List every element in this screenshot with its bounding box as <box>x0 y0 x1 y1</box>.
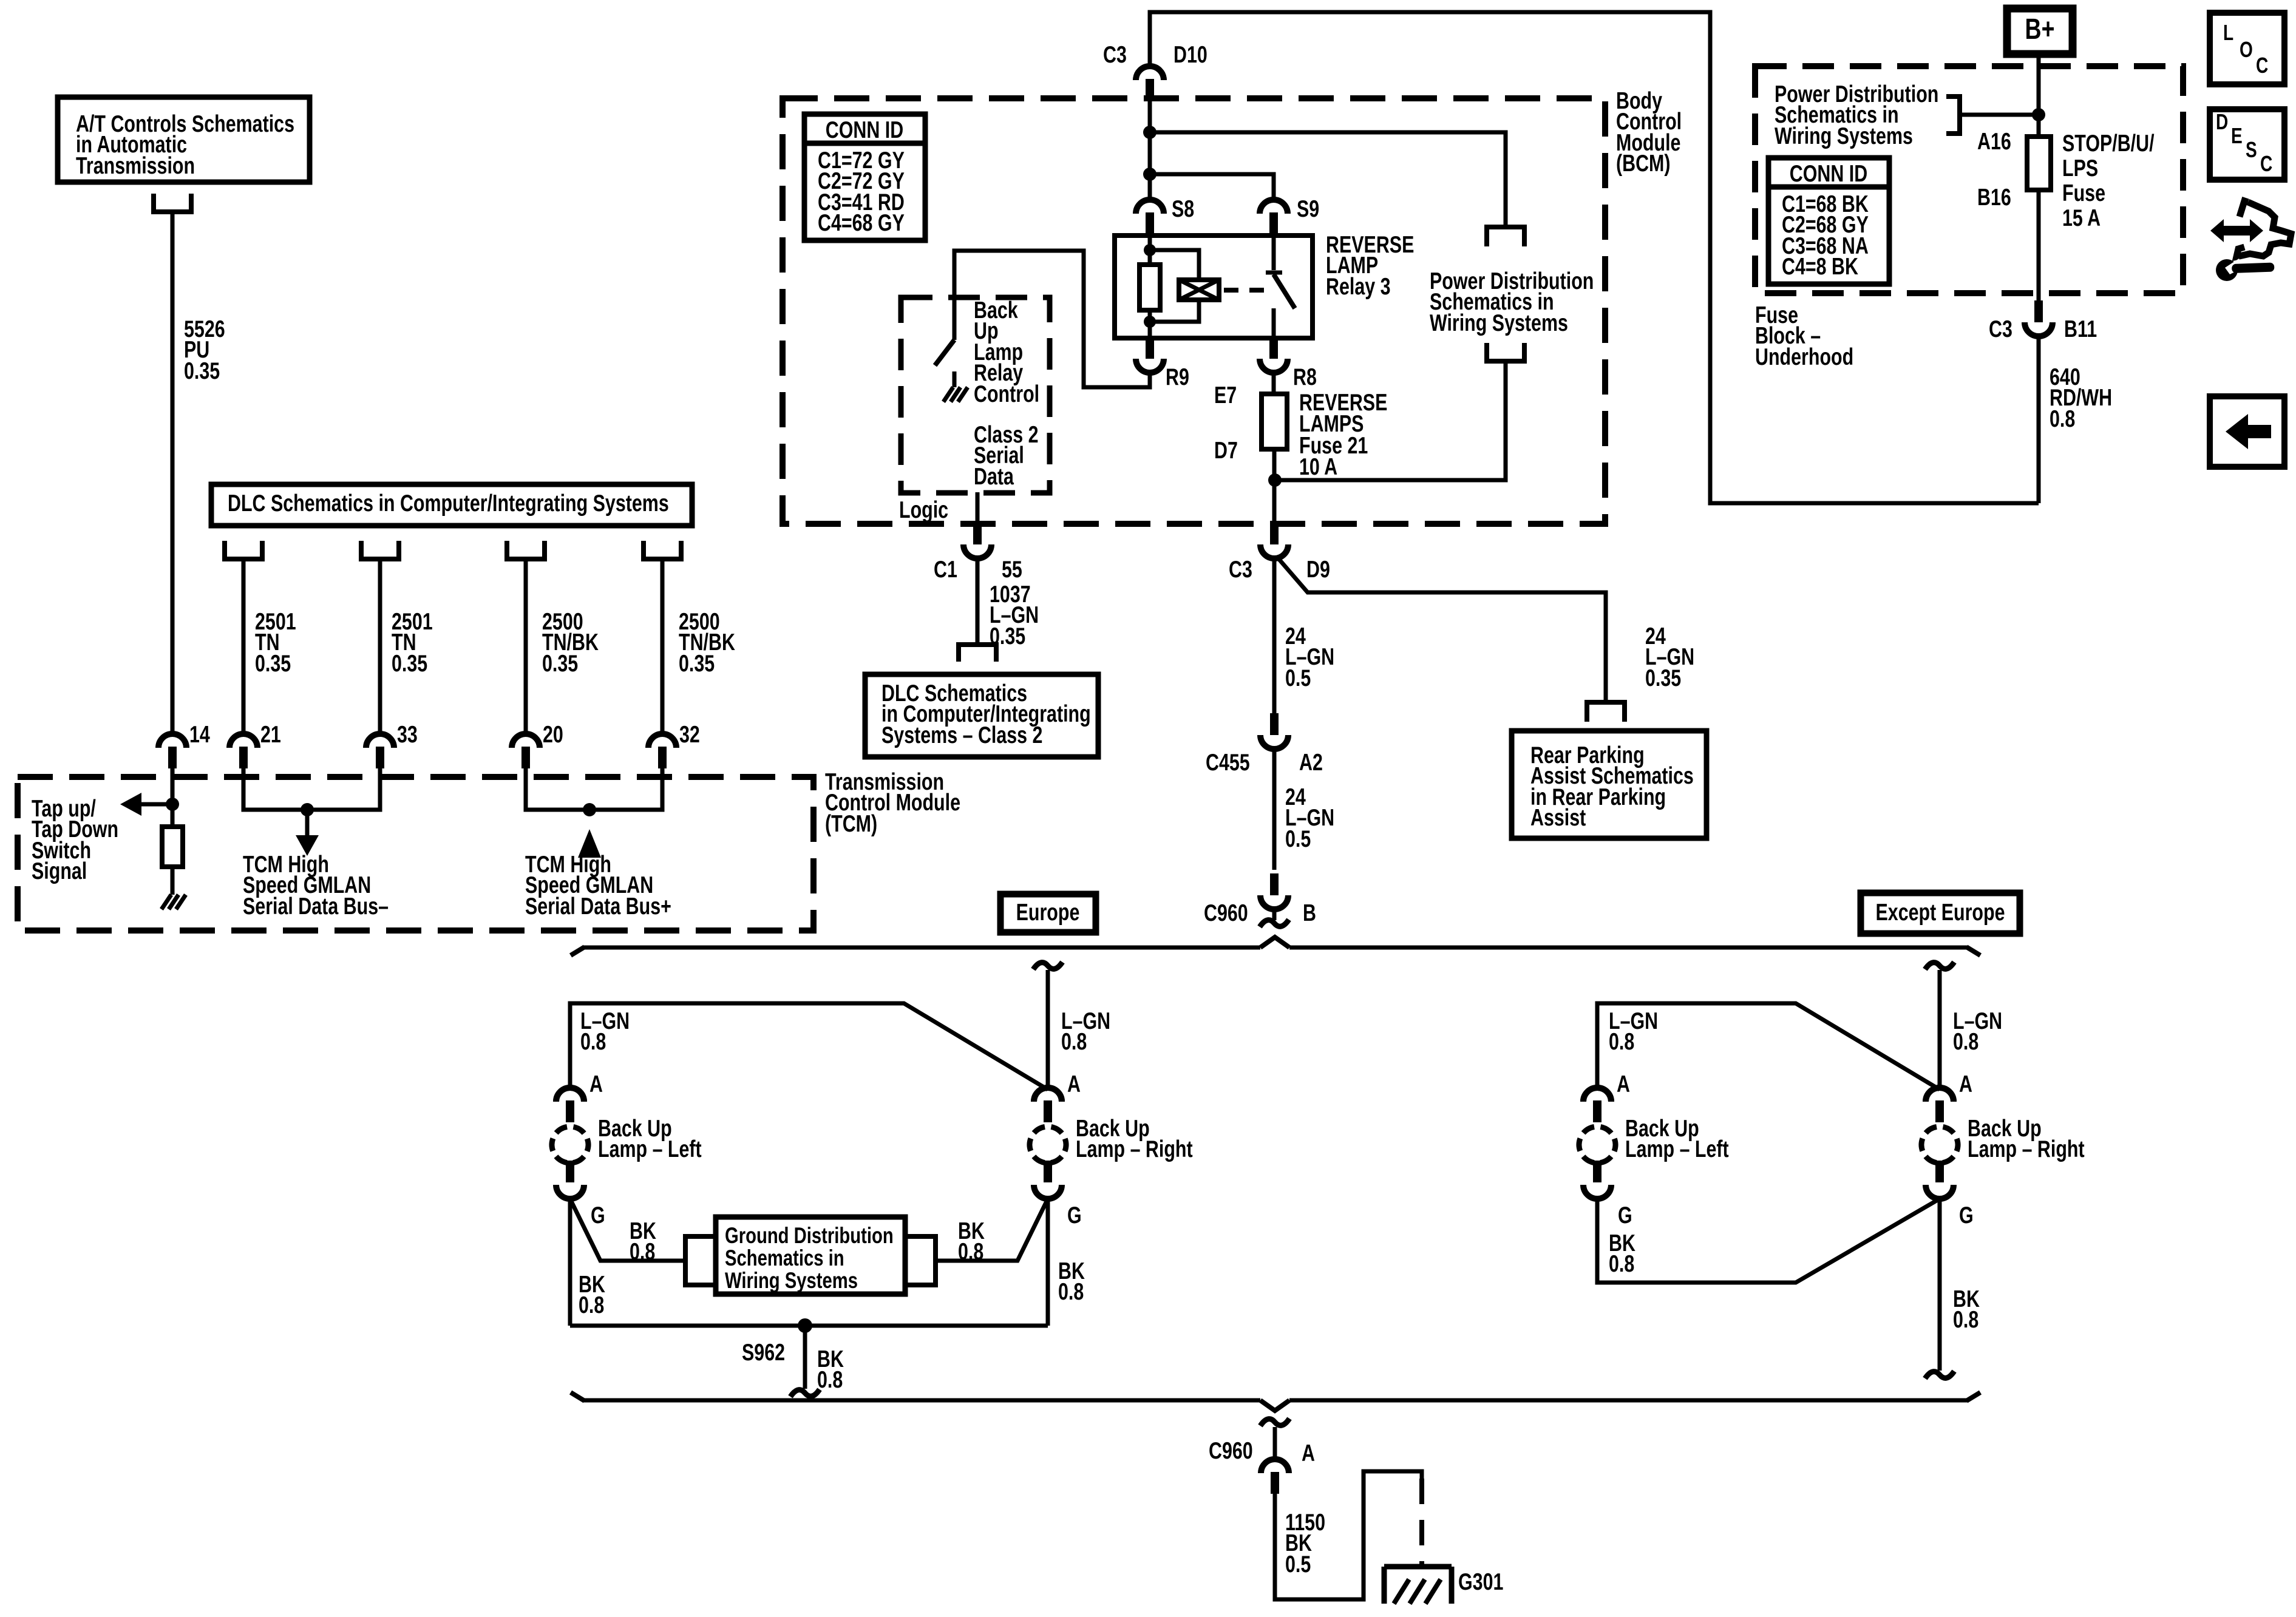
label C3 (D9 connector) <box>1229 556 1252 582</box>
module label Body Control Module (BCM) <box>1616 87 1682 176</box>
label box Europe <box>1000 894 1096 932</box>
icon wrench <box>2216 259 2274 281</box>
icon box back arrow <box>2210 396 2284 467</box>
bulb Back Up Lamp - Left (Europe) <box>545 1088 596 1199</box>
wire S962 to brace <box>803 1326 807 1389</box>
svg-text:DLC Schematics in Computer/Int: DLC Schematics in Computer/Integrating S… <box>228 490 669 516</box>
svg-text:A: A <box>1302 1440 1315 1466</box>
wire branch to rear parking assist <box>1277 557 1606 702</box>
label Back Up Lamp - Right (Europe) <box>1076 1115 1193 1162</box>
wire class-2 serial data out of BCM <box>976 492 980 529</box>
wire label 2501 TN 0.35 (pin 21) <box>255 608 296 676</box>
svg-text:Lamp – Left: Lamp – Left <box>598 1136 702 1162</box>
connector R9 <box>1136 337 1164 373</box>
label A2 <box>1299 749 1323 775</box>
staple connector above Rear Parking Assist box <box>1587 702 1625 722</box>
svg-text:C3: C3 <box>1103 41 1127 67</box>
label S9 <box>1297 195 1319 222</box>
wire from DLC staple to TCM pin at x=1091 <box>661 559 665 734</box>
label Fuse Block - Underhood <box>1755 302 1853 370</box>
wire Europe left lamp feed <box>570 1003 1048 1090</box>
label Class 2 Serial Data <box>974 421 1039 489</box>
label G Europe right <box>1067 1202 1082 1228</box>
resistor in TCM (tap switch pull) <box>162 827 183 867</box>
wire fuse B16 to C3 B11 <box>2037 190 2041 308</box>
wire label BK 0.8 Europe left drop <box>579 1271 605 1318</box>
svg-text:32: 32 <box>679 721 700 747</box>
svg-text:D9: D9 <box>1306 556 1330 582</box>
svg-text:(BCM): (BCM) <box>1616 150 1671 176</box>
connector pin 14 at TCM <box>158 734 186 768</box>
bottom brace line (to C960 A) <box>571 1392 1980 1411</box>
junction node relay coil top <box>1144 244 1156 256</box>
svg-text:Signal: Signal <box>32 858 87 884</box>
svg-text:B: B <box>1303 900 1316 926</box>
svg-text:0.5: 0.5 <box>1285 665 1311 691</box>
wire C3 D10 into BCM to relay S8 <box>1148 101 1152 200</box>
fuse REVERSE LAMPS Fuse 21 10A <box>1262 394 1287 449</box>
wire fuse D7 down <box>1272 449 1277 531</box>
wire Europe left lamp ground drop <box>568 1199 572 1326</box>
wire Except-Europe left lamp feed <box>1597 1003 1940 1090</box>
logic switch arm <box>935 340 954 365</box>
module box DLC Schematics in Computer/Integrating Systems - Class 2 <box>865 674 1098 757</box>
svg-text:Logic: Logic <box>899 497 948 523</box>
chassis ground in TCM <box>161 895 186 909</box>
wire label 24 L-GN 0.5 (lower) <box>1285 784 1334 852</box>
wire 1150 BK to ground loop <box>1275 1471 1422 1599</box>
connector S8 <box>1136 200 1164 234</box>
fuse block underhood dashed box <box>1755 66 2183 293</box>
junction node below fuse 21 <box>1268 473 1282 487</box>
resistor in relay (coil suppression) <box>1140 265 1160 310</box>
svg-text:14: 14 <box>189 721 210 747</box>
relay switch arm <box>1274 274 1295 308</box>
label D9 <box>1306 556 1330 582</box>
wire from DLC staple to TCM pin at x=626 <box>378 559 382 734</box>
svg-text:(TCM): (TCM) <box>825 810 877 836</box>
connector C960 B <box>1260 873 1288 909</box>
svg-text:B11: B11 <box>2064 316 2097 342</box>
wire Except-Europe ground link <box>1597 1199 1940 1283</box>
svg-text:R9: R9 <box>1166 364 1189 390</box>
svg-text:0.8: 0.8 <box>817 1366 843 1392</box>
wire pin 14 into TCM <box>171 768 175 827</box>
svg-text:Systems – Class 2: Systems – Class 2 <box>881 722 1042 748</box>
wire label BK 0.8 at S962 <box>817 1346 844 1392</box>
wire pin 33 to GMLAN bus- node <box>307 768 380 810</box>
label Back Up Lamp Relay Control <box>974 297 1039 407</box>
staple connector below DLC box at x=1091 <box>644 541 681 559</box>
label R9 <box>1166 364 1189 390</box>
svg-text:0.35: 0.35 <box>184 358 220 384</box>
connector A Back Up Lamp Left (Except Europe) <box>1583 1088 1611 1122</box>
wire brace to C960 A <box>1273 1427 1277 1459</box>
module box DLC Schematics in Computer/Integrating Systems <box>211 484 692 526</box>
label C3 (top connector) <box>1103 41 1127 67</box>
wire label BK 0.8 ExEur right <box>1953 1286 1980 1332</box>
svg-text:0.8: 0.8 <box>1953 1028 1978 1054</box>
svg-text:G301: G301 <box>1458 1568 1503 1595</box>
svg-text:0.5: 0.5 <box>1285 825 1311 852</box>
svg-text:0.8: 0.8 <box>1609 1250 1634 1276</box>
staple connector to Power Distribution (top) <box>1487 227 1524 246</box>
pin number 33 <box>397 721 418 747</box>
svg-text:E: E <box>2231 124 2243 148</box>
svg-text:R8: R8 <box>1293 364 1317 390</box>
icon hand with wrench (double arrow) <box>2210 219 2263 242</box>
connector A Back Up Lamp Right (Europe) <box>1034 1088 1062 1122</box>
label A ExEur left <box>1617 1071 1630 1097</box>
dashed wire to G301 <box>1419 1479 1424 1569</box>
wire bracket to B+ wire <box>1960 113 2039 117</box>
label R8 <box>1293 364 1317 390</box>
svg-text:21: 21 <box>260 721 281 747</box>
svg-text:G: G <box>1067 1202 1082 1228</box>
staple connector below DLC box at x=866 <box>507 541 545 559</box>
svg-text:0.8: 0.8 <box>1953 1306 1978 1332</box>
relay box REVERSE LAMP Relay 3 <box>1115 236 1313 338</box>
wire label L-GN 0.8 Europe right <box>1061 1008 1110 1054</box>
svg-text:0.8: 0.8 <box>630 1238 655 1264</box>
label A16 <box>1977 128 2011 154</box>
svg-text:0.8: 0.8 <box>1609 1028 1634 1054</box>
label C3 (B11) <box>1989 316 2012 342</box>
junction node S bus- <box>301 803 314 816</box>
wire label 24 L-GN 0.35 (rear parking) <box>1645 623 1694 691</box>
relay switch contact tick <box>1266 271 1282 275</box>
svg-text:0.35: 0.35 <box>255 650 291 676</box>
relay coil box with X <box>1179 280 1219 300</box>
connector pin 32 at TCM <box>648 734 676 768</box>
svg-text:33: 33 <box>397 721 418 747</box>
label A Europe left <box>589 1071 603 1097</box>
wire label 1150 BK 0.5 <box>1285 1509 1325 1577</box>
connector C455 A2 <box>1260 713 1288 749</box>
svg-text:G: G <box>1618 1202 1632 1228</box>
relay switch fixed leg <box>1272 236 1276 338</box>
svg-text:Control: Control <box>974 381 1039 407</box>
svg-text:D7: D7 <box>1214 437 1238 463</box>
wire relay coil parallel branch <box>1150 250 1199 322</box>
junction node S bus+ <box>583 803 596 816</box>
tap signal wire to arrow <box>141 802 172 807</box>
svg-text:0.8: 0.8 <box>1058 1278 1084 1304</box>
ground G301 symbol <box>1384 1567 1452 1604</box>
connector R8 <box>1260 337 1288 373</box>
svg-text:Assist: Assist <box>1530 804 1586 830</box>
connector C960 A <box>1261 1459 1289 1494</box>
svg-text:S8: S8 <box>1172 195 1194 222</box>
wire S9/R8 to fuse E7 <box>1272 373 1276 394</box>
wire 640 RD/WH down (to loop) <box>2037 336 2041 503</box>
svg-text:Serial Data Bus–: Serial Data Bus– <box>243 893 389 919</box>
wire pin 20 to GMLAN bus+ node <box>526 768 589 810</box>
wire 5526 from A/T box to pin 14 <box>171 212 175 734</box>
junction splice S962 <box>798 1318 812 1333</box>
label A (C960) <box>1302 1440 1315 1466</box>
pin number 21 <box>260 721 281 747</box>
svg-text:E7: E7 <box>1214 382 1237 408</box>
logic switch ground stub <box>953 371 957 387</box>
svg-text:L: L <box>2223 21 2233 45</box>
svg-text:Wiring Systems: Wiring Systems <box>1430 310 1568 336</box>
label C1 <box>934 556 957 582</box>
label Power Distribution Schematics in Wiring Systems (fuse block) <box>1775 81 1938 149</box>
fuse label STOP/B/U/ LPS Fuse 15 A <box>2062 130 2155 231</box>
svg-text:C: C <box>2260 152 2272 176</box>
wire C455 to C960 B <box>1272 749 1277 870</box>
wire label 24 L-GN 0.5 (upper) <box>1285 623 1334 691</box>
label G ExEur left <box>1618 1202 1632 1228</box>
svg-text:C4=68 GY: C4=68 GY <box>818 209 905 236</box>
connector C1 55 <box>963 523 991 558</box>
wire 1037 to DLC box <box>976 558 980 645</box>
label TCM High Speed GMLAN Serial Data Bus+ <box>525 851 671 919</box>
pin number 32 <box>679 721 700 747</box>
label E7 <box>1214 382 1237 408</box>
label G301 <box>1458 1568 1503 1595</box>
wire Europe ground bus <box>570 1324 1048 1328</box>
svg-text:A: A <box>1067 1071 1081 1097</box>
label C960 (B) <box>1204 900 1248 926</box>
svg-text:B+: B+ <box>2025 13 2055 46</box>
pin number 20 <box>543 721 563 747</box>
label Back Up Lamp - Left (Except Europe) <box>1625 1115 1729 1162</box>
wire label 5526 PU 0.35 <box>184 316 225 384</box>
chassis ground at logic switch <box>943 387 968 402</box>
label S8 <box>1172 195 1194 222</box>
wire label BK 0.8 Europe right diagonal <box>958 1218 985 1264</box>
connector C3 D10 into BCM <box>1136 66 1164 101</box>
CONN ID table (BCM) <box>804 114 925 240</box>
svg-text:S962: S962 <box>742 1339 785 1365</box>
svg-text:Lamp – Right: Lamp – Right <box>1076 1136 1193 1162</box>
wire branch to relay S9 <box>1150 174 1274 200</box>
svg-text:A: A <box>1959 1071 1972 1097</box>
label Back Up Lamp - Right (Except Europe) <box>1968 1115 2085 1162</box>
module box Rear Parking Assist Schematics in Rear Parking Assist <box>1512 731 1707 838</box>
relay mechanical link dashed <box>1224 288 1268 293</box>
staple connector above DLC class-2 box <box>959 645 996 662</box>
svg-text:CONN ID: CONN ID <box>1790 160 1867 186</box>
arrow down GMLAN bus- <box>296 810 319 856</box>
junction node to relay switch branch <box>1143 168 1156 181</box>
connector A Back Up Lamp Right (Except Europe) <box>1926 1088 1954 1122</box>
wire from DLC staple to TCM pin at x=866 <box>524 559 528 734</box>
label box Except Europe <box>1861 893 2020 934</box>
svg-text:D: D <box>2216 110 2228 134</box>
arrow up GMLAN bus+ <box>578 829 601 858</box>
relay coil leg wire <box>1148 236 1152 265</box>
label TCM High Speed GMLAN Serial Data Bus- <box>243 851 389 919</box>
svg-text:0.5: 0.5 <box>1285 1551 1311 1577</box>
wire label BK 0.8 Europe left diagonal <box>630 1218 656 1264</box>
brace tap squiggle C960 A <box>1260 1419 1289 1426</box>
svg-text:Ground Distribution: Ground Distribution <box>725 1224 894 1249</box>
svg-text:0.35: 0.35 <box>1645 665 1681 691</box>
bulb Back Up Lamp - Right (Europe) <box>1022 1088 1074 1199</box>
svg-text:C3: C3 <box>1229 556 1252 582</box>
wire end squiggle S962 <box>790 1389 820 1397</box>
label G Europe left <box>591 1202 605 1228</box>
junction node at B+ wire <box>2032 108 2045 121</box>
wire resistor to ground <box>171 867 175 895</box>
pin number 14 <box>189 721 210 747</box>
svg-text:LPS: LPS <box>2062 155 2098 181</box>
svg-text:C960: C960 <box>1204 900 1248 926</box>
svg-text:O: O <box>2240 38 2253 62</box>
svg-text:D10: D10 <box>1173 41 1207 67</box>
svg-text:CONN ID: CONN ID <box>826 117 903 143</box>
power feed box B+ <box>2007 8 2073 54</box>
svg-text:Wiring Systems: Wiring Systems <box>725 1269 858 1293</box>
wire B+ down to fuse <box>2037 54 2041 137</box>
bracket into Ground Distribution box (right) <box>908 1236 936 1285</box>
svg-text:55: 55 <box>1002 556 1022 582</box>
junction node on tap signal wire <box>166 798 179 811</box>
svg-text:0.35: 0.35 <box>392 650 427 676</box>
connector C960 B mate squiggle <box>1260 920 1289 927</box>
wire power distribution branch to fuse node <box>1274 361 1506 480</box>
staple connector below A/T box <box>154 194 191 212</box>
svg-text:B16: B16 <box>1977 184 2011 210</box>
wire label BK 0.8 ExEur left <box>1609 1230 1635 1276</box>
svg-text:C1: C1 <box>934 556 957 582</box>
bracket into Ground Distribution box (left) <box>685 1236 713 1285</box>
svg-text:S: S <box>2246 138 2257 162</box>
bulb Back Up Lamp - Right (Except Europe) <box>1914 1088 1966 1199</box>
brace tap squiggle Europe right lamp <box>1033 962 1062 969</box>
wire label L-GN 0.8 Europe left <box>580 1008 630 1054</box>
wire Europe right lamp ground drop <box>1046 1199 1050 1326</box>
wire Europe right lamp to ground distribution <box>936 1199 1048 1261</box>
icon box LOC <box>2210 13 2284 84</box>
svg-text:0.8: 0.8 <box>2050 405 2075 432</box>
svg-text:Wiring Systems: Wiring Systems <box>1775 123 1913 149</box>
svg-text:10 A: 10 A <box>1299 453 1337 480</box>
junction node to power-distribution branch <box>1143 126 1156 139</box>
wire label 2500 TN/BK 0.35 (pin 20) <box>542 608 599 676</box>
svg-text:Underhood: Underhood <box>1755 344 1853 370</box>
svg-text:Transmission: Transmission <box>76 152 195 178</box>
label S962 <box>742 1339 785 1365</box>
svg-text:G: G <box>1959 1202 1974 1228</box>
wire from DLC staple to TCM pin at x=401 <box>242 559 246 734</box>
staple connector below DLC box at x=626 <box>361 541 399 559</box>
junction node relay coil bottom <box>1144 316 1156 328</box>
connector pin 33 at TCM <box>366 734 394 768</box>
svg-text:C4=8 BK: C4=8 BK <box>1782 253 1858 279</box>
svg-text:0.8: 0.8 <box>579 1292 604 1318</box>
label G ExEur right <box>1959 1202 1974 1228</box>
module label Transmission Control Module (TCM) <box>825 768 960 836</box>
wire R9 to logic switch <box>954 251 1150 387</box>
wire Except-Europe right lamp drop <box>1938 970 1942 1088</box>
svg-text:0.8: 0.8 <box>580 1028 606 1054</box>
label Back Up Lamp - Left (Europe) <box>598 1115 702 1162</box>
connector pin 20 at TCM <box>512 734 540 768</box>
fuse label REVERSE LAMPS Fuse 21 10 A <box>1299 389 1387 480</box>
module box Ground Distribution Schematics in Wiring Systems <box>716 1217 905 1294</box>
dashed box Back Up Lamp Relay Control / Class 2 Serial Data <box>901 297 1050 493</box>
wire label L-GN 0.8 ExEur left <box>1609 1008 1658 1054</box>
svg-text:Europe: Europe <box>1016 899 1080 925</box>
staple connector below DLC box at x=401 <box>225 541 262 559</box>
fuse STOP/B/U/LPS 15A <box>2027 137 2051 190</box>
svg-text:C: C <box>2256 53 2268 78</box>
connector C3 B11 <box>2025 300 2053 336</box>
label A Europe right <box>1067 1071 1081 1097</box>
brace tap squiggle Except-Europe right lamp <box>1925 962 1954 969</box>
wire Except-Europe right ground drop <box>1938 1199 1942 1371</box>
icon hand outline <box>2237 201 2291 257</box>
svg-text:Data: Data <box>974 463 1014 489</box>
svg-text:Except Europe: Except Europe <box>1876 899 2005 925</box>
label D10 <box>1173 41 1207 67</box>
label C455 <box>1206 749 1250 775</box>
wire label 640 RD/WH 0.8 <box>2050 364 2112 432</box>
svg-text:Fuse: Fuse <box>2062 180 2105 206</box>
svg-text:G: G <box>591 1202 605 1228</box>
top brace line (lamp variants) <box>571 937 1980 955</box>
label Logic <box>899 497 948 523</box>
svg-text:A: A <box>1617 1071 1630 1097</box>
label Power Distribution Schematics in Wiring Systems (BCM) <box>1430 268 1594 336</box>
label B16 <box>1977 184 2011 210</box>
wire label 1037 L-GN 0.35 <box>990 581 1039 649</box>
wire pin 32 to GMLAN bus+ node <box>589 768 662 810</box>
label Tap up/Tap Down Switch Signal <box>32 795 118 884</box>
wire label 2500 TN/BK 0.35 (pin 32) <box>679 608 735 676</box>
BCM module dashed box <box>783 98 1605 524</box>
connector A Back Up Lamp Left (Europe) <box>556 1088 584 1122</box>
svg-text:C960: C960 <box>1209 1437 1253 1463</box>
svg-text:0.8: 0.8 <box>958 1238 983 1264</box>
arrow left (Tap up/Tap Down Switch Signal) <box>120 793 141 816</box>
wire label BK 0.8 Europe right drop <box>1058 1258 1085 1304</box>
label B11 <box>2064 316 2097 342</box>
svg-text:15 A: 15 A <box>2062 205 2101 231</box>
wire label 2501 TN 0.35 (pin 33) <box>392 608 433 676</box>
svg-text:S9: S9 <box>1297 195 1319 222</box>
svg-text:Lamp – Right: Lamp – Right <box>1968 1136 2085 1162</box>
label C960 (A) <box>1209 1437 1253 1463</box>
svg-text:C455: C455 <box>1206 749 1250 775</box>
wire Europe left lamp to ground distribution <box>570 1199 685 1261</box>
relay label REVERSE LAMP Relay 3 <box>1326 231 1414 299</box>
CONN ID table (fuse block) <box>1768 158 1889 284</box>
wire branch to Power Distribution staple <box>1150 132 1506 227</box>
wire Europe right lamp drop <box>1046 970 1050 1088</box>
wire pin 21 to GMLAN bus- node <box>243 768 307 810</box>
label A ExEur right <box>1959 1071 1972 1097</box>
wire label L-GN 0.8 ExEur right <box>1953 1008 2002 1054</box>
svg-text:A16: A16 <box>1977 128 2011 154</box>
svg-text:0.35: 0.35 <box>542 650 578 676</box>
label D7 <box>1214 437 1238 463</box>
wire relay resistor bottom <box>1148 310 1152 338</box>
svg-text:0.35: 0.35 <box>679 650 715 676</box>
svg-text:Serial Data Bus+: Serial Data Bus+ <box>525 893 671 919</box>
svg-text:Lamp – Left: Lamp – Left <box>1625 1136 1729 1162</box>
label B <box>1303 900 1316 926</box>
staple connector from Power Distribution (bottom) <box>1487 343 1524 361</box>
svg-text:Schematics in: Schematics in <box>725 1246 844 1271</box>
connector pin 21 at TCM <box>229 734 257 768</box>
wire main feed top loop (B+ branch to BCM C3 D10) <box>1150 12 2039 503</box>
svg-text:0.8: 0.8 <box>1061 1028 1087 1054</box>
